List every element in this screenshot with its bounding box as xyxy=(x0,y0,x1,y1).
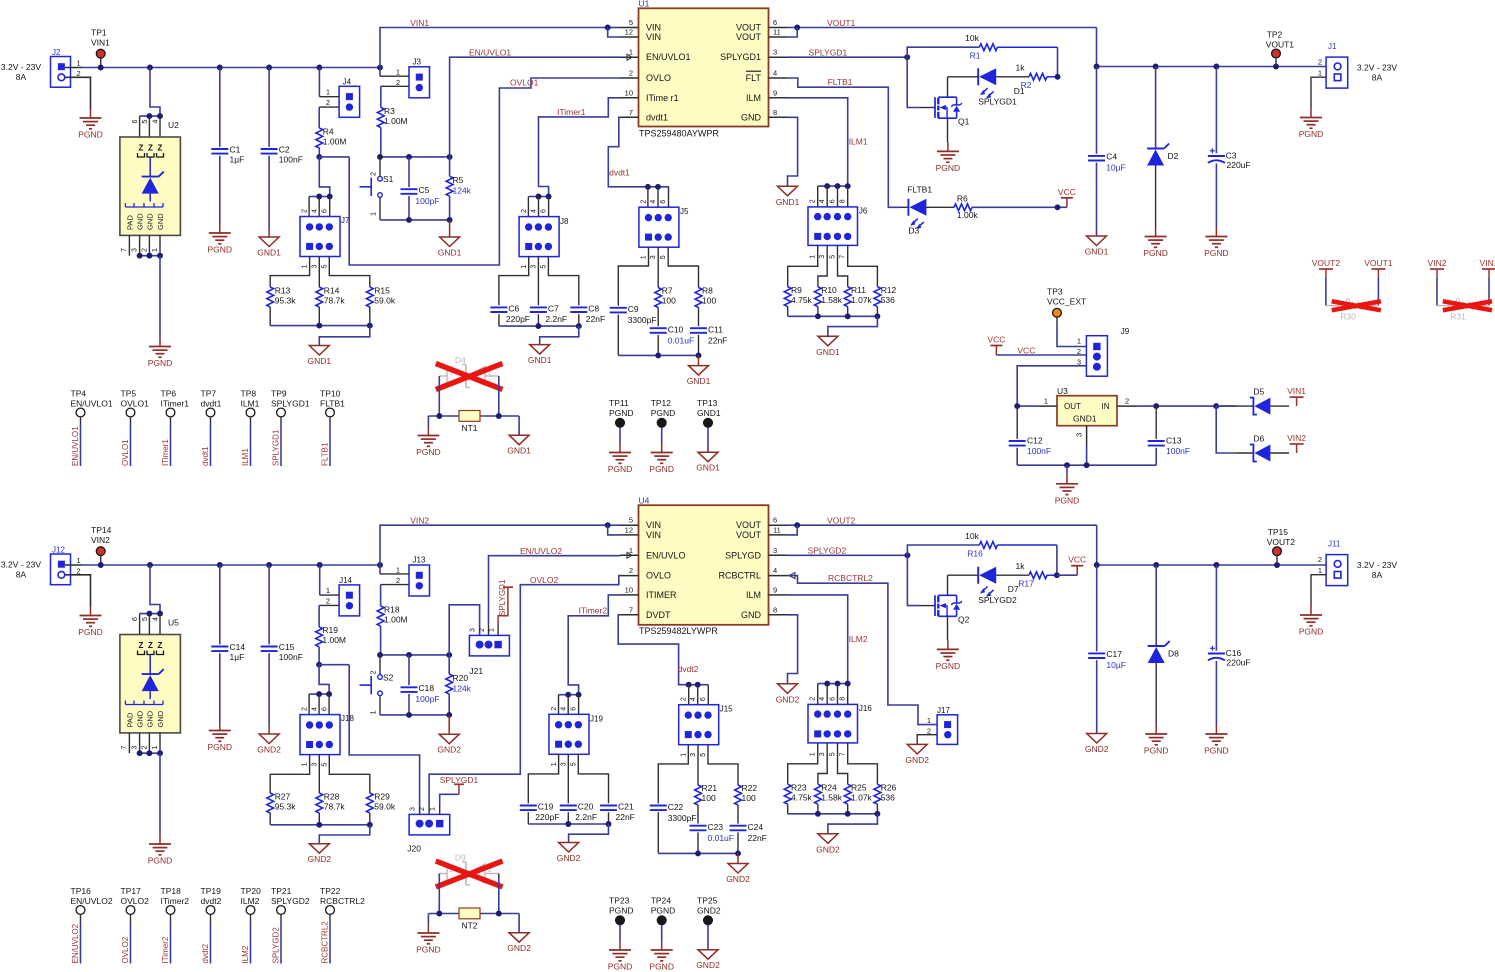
svg-text:R14: R14 xyxy=(324,286,340,296)
svg-text:R22: R22 xyxy=(742,783,758,793)
svg-text:R17: R17 xyxy=(1018,578,1034,588)
svg-text:J17: J17 xyxy=(937,706,950,715)
capacitor C24 22nF xyxy=(730,822,767,853)
svg-text:ITimer2: ITimer2 xyxy=(161,936,170,963)
wire U4 GND pin to GND2 xyxy=(787,615,798,684)
power symbol PGND at TP24 xyxy=(649,941,674,972)
net label EN/UVLO2 xyxy=(520,546,562,556)
svg-text:1: 1 xyxy=(1318,566,1322,575)
svg-text:EN/UVLO2: EN/UVLO2 xyxy=(71,923,80,963)
jumper J6 xyxy=(808,186,868,259)
svg-text:TP24: TP24 xyxy=(651,896,672,906)
svg-text:5: 5 xyxy=(321,763,328,767)
svg-text:VIN2: VIN2 xyxy=(1287,433,1306,443)
svg-text:0.01uF: 0.01uF xyxy=(668,336,694,346)
wire net OVLO2 J20 pin2 to U4 xyxy=(429,576,620,804)
svg-text:4: 4 xyxy=(819,199,826,203)
svg-text:EN/UVLO1: EN/UVLO1 xyxy=(71,426,80,466)
svg-text:220uF: 220uF xyxy=(1227,657,1251,667)
resistor R25 1.07k xyxy=(844,783,872,814)
svg-text:GND2: GND2 xyxy=(816,844,840,854)
diode D9 (DNP crossed out) xyxy=(439,853,499,886)
svg-text:EN/UVLO2: EN/UVLO2 xyxy=(71,896,113,906)
capacitor C2 xyxy=(261,68,303,229)
svg-text:5: 5 xyxy=(629,516,633,525)
test point TP8 ILM1 xyxy=(241,389,260,467)
svg-text:C20: C20 xyxy=(578,802,594,812)
net flag SPLYGD1 at J20 pin1 xyxy=(440,775,479,804)
LED D3 FLTB1 xyxy=(901,185,954,236)
wire bus to U2 xyxy=(140,68,163,138)
jumper J19 xyxy=(549,695,603,767)
resistor R17 1k xyxy=(1016,561,1060,588)
power symbol PGND at NT1 xyxy=(416,416,441,457)
header J9 xyxy=(1077,327,1130,376)
jumper J18 xyxy=(300,707,354,767)
wire divider bottoms to GND2 xyxy=(270,822,373,844)
svg-text:PGND: PGND xyxy=(1299,627,1324,637)
svg-text:1.07k: 1.07k xyxy=(851,793,873,803)
svg-text:2: 2 xyxy=(326,98,330,107)
svg-text:7: 7 xyxy=(840,752,847,756)
net label ITimer2 xyxy=(579,605,608,615)
svg-text:R19: R19 xyxy=(322,625,338,635)
svg-text:8: 8 xyxy=(773,605,777,614)
svg-text:6: 6 xyxy=(132,120,139,124)
svg-text:PGND: PGND xyxy=(1299,129,1324,139)
svg-text:PGND: PGND xyxy=(1204,248,1229,258)
capacitor C7 2.2nF xyxy=(530,304,567,327)
regulator U3 xyxy=(1037,386,1136,446)
power symbol PGND at J11 xyxy=(1299,606,1324,637)
capacitor C17 10uF xyxy=(1088,565,1126,734)
net label SPLYGD1 xyxy=(809,48,848,58)
svg-text:PGND: PGND xyxy=(1055,495,1080,505)
svg-text:2: 2 xyxy=(1318,555,1322,564)
wires J19 to caps xyxy=(528,754,608,803)
capacitor C15 100nF xyxy=(261,565,303,726)
svg-text:GND1: GND1 xyxy=(1085,247,1109,257)
capacitor C3 220uF xyxy=(1208,67,1251,228)
svg-text:7: 7 xyxy=(840,255,847,259)
svg-text:FLTB1: FLTB1 xyxy=(907,185,932,195)
ground GND2 at J17 xyxy=(905,744,929,765)
svg-text:SPLYGD1: SPLYGD1 xyxy=(440,775,479,785)
capacitor C4 10uF xyxy=(1088,67,1126,237)
svg-text:TP20: TP20 xyxy=(241,886,262,896)
svg-text:1: 1 xyxy=(681,753,688,757)
svg-text:dvdt1: dvdt1 xyxy=(609,168,630,178)
capacitor C6 220pF xyxy=(490,304,530,327)
svg-text:OVLO2: OVLO2 xyxy=(121,936,130,963)
svg-text:PGND: PGND xyxy=(649,464,674,474)
svg-text:VOUT2: VOUT2 xyxy=(827,516,856,526)
header J3 xyxy=(380,58,430,98)
svg-text:D2: D2 xyxy=(1168,151,1179,161)
pushbutton S2 xyxy=(360,655,394,715)
wires J15 pins down xyxy=(658,745,738,804)
svg-text:TP7: TP7 xyxy=(201,389,217,399)
svg-text:GND2: GND2 xyxy=(776,694,800,704)
svg-text:1: 1 xyxy=(396,566,400,575)
svg-text:10k: 10k xyxy=(965,33,979,43)
test point TP10 FLTB1 xyxy=(320,389,345,467)
svg-text:7: 7 xyxy=(121,248,128,252)
capacitor C1 xyxy=(211,68,244,225)
svg-text:1.07k: 1.07k xyxy=(851,295,873,305)
svg-text:J4: J4 xyxy=(343,78,352,87)
wire D4 to NT1 row xyxy=(428,376,519,419)
svg-text:10µF: 10µF xyxy=(1106,660,1126,670)
ground GND2 at C17 xyxy=(1085,734,1109,755)
svg-text:R21: R21 xyxy=(702,783,718,793)
svg-text:TP15: TP15 xyxy=(1268,527,1289,537)
test point TP1 xyxy=(91,28,110,68)
net flag VOUT2 at R30 xyxy=(1312,258,1341,306)
capacitor C23 0.01uF xyxy=(690,822,734,853)
svg-text:10: 10 xyxy=(625,585,633,594)
svg-text:2.2nF: 2.2nF xyxy=(545,314,567,324)
svg-text:C11: C11 xyxy=(708,325,723,335)
power symbol PGND at J1 xyxy=(1299,109,1324,140)
capacitor C5 100pF xyxy=(401,157,440,220)
svg-text:3: 3 xyxy=(132,746,139,750)
svg-text:J6: J6 xyxy=(859,207,868,216)
wire J2 pin2 to PGND xyxy=(65,77,91,109)
net tie NT2 xyxy=(459,908,480,931)
svg-text:GND1: GND1 xyxy=(696,463,720,473)
svg-text:TP4: TP4 xyxy=(71,389,87,399)
ground GND1 at TP13 xyxy=(696,452,720,473)
test point TP9 SPLYGD1 xyxy=(271,389,310,467)
svg-text:59.0k: 59.0k xyxy=(374,296,396,306)
svg-text:95.3k: 95.3k xyxy=(275,296,297,306)
svg-text:C12: C12 xyxy=(1027,435,1043,445)
red X over R31 xyxy=(1443,301,1492,310)
wire U3 IN node xyxy=(1137,403,1237,409)
svg-text:536: 536 xyxy=(881,793,895,803)
net flag VOUT1 at R30 xyxy=(1364,258,1393,306)
svg-text:U3: U3 xyxy=(1057,386,1068,396)
svg-text:OVLO2: OVLO2 xyxy=(530,575,559,585)
svg-text:GND1: GND1 xyxy=(528,355,552,365)
svg-text:124k: 124k xyxy=(453,186,472,196)
connector J1 xyxy=(1318,42,1398,88)
header J13 xyxy=(380,556,430,597)
svg-text:VIN2: VIN2 xyxy=(410,516,429,526)
wire U5 bottom pins to PGND xyxy=(129,733,163,835)
net VCC at R6 xyxy=(1055,187,1076,210)
svg-text:J5: J5 xyxy=(680,207,689,216)
svg-text:GND2: GND2 xyxy=(697,905,721,915)
svg-text:1.58k: 1.58k xyxy=(821,793,843,803)
test point TP7 dvdt1 xyxy=(201,389,222,467)
svg-text:OVLO1: OVLO1 xyxy=(121,398,150,408)
ground GND2 at C15 xyxy=(257,726,281,755)
svg-text:PGND: PGND xyxy=(208,245,233,255)
svg-text:TP22: TP22 xyxy=(320,886,341,896)
net flag SPLYGD1 at J21 pin1 xyxy=(498,579,513,625)
ground GND1 at ILM divider xyxy=(816,336,840,357)
wire node to J18 select bar xyxy=(309,665,332,715)
svg-text:8A: 8A xyxy=(1372,570,1383,580)
wire S1/C5/R5 bottoms xyxy=(380,217,453,223)
svg-text:6: 6 xyxy=(773,516,777,525)
resistor R16 10k xyxy=(907,531,1057,575)
resistor R30 0 (DNP crossed out) xyxy=(1326,297,1379,322)
resistor R18 1.00M xyxy=(377,585,407,655)
svg-text:dvdt2: dvdt2 xyxy=(678,664,699,674)
svg-text:J18: J18 xyxy=(341,714,354,723)
power symbol PGND at U5 xyxy=(148,835,173,866)
svg-text:ITimer1: ITimer1 xyxy=(161,398,190,408)
svg-text:GND1: GND1 xyxy=(776,197,800,207)
svg-text:2: 2 xyxy=(641,200,648,204)
svg-text:6: 6 xyxy=(571,707,578,711)
resistor R11 1.07k xyxy=(844,285,872,316)
svg-text:TP13: TP13 xyxy=(697,398,718,408)
net tie NT1 xyxy=(459,411,480,434)
svg-text:2: 2 xyxy=(396,576,400,585)
ground GND2 at C24 xyxy=(726,853,750,884)
svg-text:78.7k: 78.7k xyxy=(324,802,346,812)
svg-text:TP21: TP21 xyxy=(271,886,292,896)
svg-text:4: 4 xyxy=(773,566,777,575)
resistor R3 1.00M xyxy=(377,86,407,157)
svg-text:GND1: GND1 xyxy=(507,446,531,456)
svg-text:100pF: 100pF xyxy=(415,694,439,704)
power symbol PGND at C1 xyxy=(208,224,233,255)
capacitor C21 22nF xyxy=(600,802,635,825)
test point TP23 PGND xyxy=(609,896,634,942)
svg-text:ILM1: ILM1 xyxy=(849,137,868,147)
svg-text:11: 11 xyxy=(773,525,781,534)
svg-text:R10: R10 xyxy=(821,285,837,295)
wire S2/C18/R20 bottoms xyxy=(380,712,452,718)
svg-text:8A: 8A xyxy=(16,72,27,82)
svg-text:VOUT2: VOUT2 xyxy=(1312,258,1341,268)
resistor R24 1.58k xyxy=(815,783,843,814)
power symbol PGND at J12 xyxy=(78,607,103,638)
power symbol PGND at J2 xyxy=(78,109,103,140)
svg-text:2: 2 xyxy=(302,707,309,711)
power symbol PGND at D8 xyxy=(1144,725,1169,756)
resistor R15 59.0k xyxy=(366,286,395,326)
svg-text:OVLO: OVLO xyxy=(646,571,671,581)
svg-text:R20: R20 xyxy=(453,673,469,683)
svg-text:4: 4 xyxy=(531,209,538,213)
svg-text:R7: R7 xyxy=(662,286,673,296)
svg-text:3: 3 xyxy=(773,48,777,57)
resistor R4 1.00M xyxy=(316,107,347,157)
svg-text:OUT: OUT xyxy=(1064,402,1081,411)
svg-text:OVLO2: OVLO2 xyxy=(121,896,150,906)
svg-text:R5: R5 xyxy=(453,175,464,185)
svg-text:4: 4 xyxy=(650,200,657,204)
svg-text:5: 5 xyxy=(571,762,578,766)
net flag VIN2 at R31 xyxy=(1428,258,1447,306)
wire bus to J3 pin1 xyxy=(379,68,381,77)
net label RCBCTRL2 xyxy=(828,573,873,583)
resistor R29 59.0k xyxy=(366,792,395,825)
svg-text:1.00M: 1.00M xyxy=(384,116,408,126)
svg-text:1.00M: 1.00M xyxy=(322,635,346,645)
svg-text:D3: D3 xyxy=(908,226,919,236)
svg-text:3: 3 xyxy=(311,265,318,269)
jumper J16 xyxy=(808,684,872,757)
svg-text:RCBCTRL: RCBCTRL xyxy=(718,571,761,581)
svg-text:C6: C6 xyxy=(508,304,519,314)
svg-text:EN/UVLO1: EN/UVLO1 xyxy=(469,48,511,58)
svg-text:PGND: PGND xyxy=(208,742,233,752)
svg-text:SPLYGD2: SPLYGD2 xyxy=(978,595,1017,605)
svg-text:8: 8 xyxy=(773,108,777,117)
svg-text:100: 100 xyxy=(742,793,756,803)
svg-text:3: 3 xyxy=(1075,433,1084,437)
svg-text:12: 12 xyxy=(625,525,633,534)
svg-text:100nF: 100nF xyxy=(1166,446,1190,456)
svg-text:ITime r1: ITime r1 xyxy=(646,93,679,103)
svg-text:R4: R4 xyxy=(323,127,334,137)
wire ILM resistors bottom rail xyxy=(788,313,881,336)
svg-text:R1: R1 xyxy=(970,51,981,61)
svg-text:VIN: VIN xyxy=(646,23,661,33)
ground GND1 at C2 xyxy=(257,228,281,258)
svg-text:3.2V - 23V: 3.2V - 23V xyxy=(1357,560,1397,570)
svg-text:J12: J12 xyxy=(52,546,65,555)
svg-text:22nF: 22nF xyxy=(748,833,767,843)
test point TP13 GND1 xyxy=(697,398,721,452)
test point TP5 OVLO1 xyxy=(121,389,150,467)
capacitor C9 3300pF xyxy=(610,304,657,355)
svg-text:1: 1 xyxy=(371,212,378,216)
svg-text:R13: R13 xyxy=(275,286,291,296)
svg-text:5: 5 xyxy=(829,752,836,756)
pushbutton S1 xyxy=(360,157,394,220)
svg-text:R16: R16 xyxy=(967,548,983,558)
svg-text:1: 1 xyxy=(1318,69,1322,78)
power symbol PGND at D2 xyxy=(1143,228,1168,259)
net label ILM2 xyxy=(849,634,868,644)
svg-text:124k: 124k xyxy=(453,684,472,694)
svg-text:VIN1: VIN1 xyxy=(1287,386,1306,396)
svg-text:J13: J13 xyxy=(413,556,426,565)
svg-text:PGND: PGND xyxy=(1143,248,1168,258)
svg-text:J11: J11 xyxy=(1328,540,1341,549)
svg-text:1: 1 xyxy=(302,265,309,269)
net label ILM1 xyxy=(849,137,868,147)
test point TP17 OVLO2 xyxy=(121,886,150,964)
svg-text:C10: C10 xyxy=(668,325,684,335)
resistor R21 100 xyxy=(695,783,718,824)
svg-text:D6: D6 xyxy=(1253,434,1264,444)
svg-text:TP5: TP5 xyxy=(121,389,137,399)
net label dvdt1 xyxy=(609,168,630,178)
test point TP6 ITimer1 xyxy=(161,389,190,467)
wire net dvdt2 xyxy=(618,615,708,688)
header J20 xyxy=(407,804,449,854)
svg-text:5: 5 xyxy=(142,617,149,621)
connector J12 xyxy=(1,546,81,585)
svg-text:GND2: GND2 xyxy=(307,854,331,864)
svg-text:TP11: TP11 xyxy=(609,398,629,408)
test point TP16 EN/UVLO2 xyxy=(71,886,113,964)
wire TP3 to J9 pin1 xyxy=(1057,326,1086,347)
ground GND2 at divider xyxy=(307,844,331,865)
svg-text:22nF: 22nF xyxy=(616,812,635,822)
power symbol VCC at J9 xyxy=(987,335,1005,356)
svg-text:R18: R18 xyxy=(384,605,400,615)
power symbol PGND at C3 xyxy=(1204,228,1229,259)
svg-text:4: 4 xyxy=(773,69,777,78)
svg-text:PGND: PGND xyxy=(148,358,173,368)
svg-text:4: 4 xyxy=(561,707,568,711)
svg-text:1.00M: 1.00M xyxy=(323,137,347,147)
wire net ITimer1 xyxy=(528,98,620,200)
svg-text:GND1: GND1 xyxy=(697,408,721,418)
svg-text:2: 2 xyxy=(371,670,378,674)
test point TP24 PGND xyxy=(651,896,676,942)
svg-text:Q1: Q1 xyxy=(958,117,970,127)
wire C6-C8 bottoms to GND1 xyxy=(499,323,582,344)
svg-text:5: 5 xyxy=(660,255,667,259)
svg-text:Z: Z xyxy=(139,144,144,153)
wire net FLTB1 xyxy=(787,78,901,207)
svg-text:TP6: TP6 xyxy=(161,389,177,399)
test point TP19 dvdt2 xyxy=(201,886,222,964)
svg-text:ILM: ILM xyxy=(746,93,761,103)
svg-text:4: 4 xyxy=(690,697,697,701)
svg-text:TP2: TP2 xyxy=(1267,30,1283,40)
svg-text:R11: R11 xyxy=(851,285,866,295)
svg-text:ITimer1: ITimer1 xyxy=(557,107,586,117)
diode D6 xyxy=(1216,406,1289,461)
wire VIN pins of U4 xyxy=(605,522,620,535)
svg-text:3: 3 xyxy=(132,248,139,252)
wire J11 pin1 to PGND xyxy=(1311,575,1326,606)
svg-text:2: 2 xyxy=(629,69,633,78)
svg-text:ILM: ILM xyxy=(746,590,761,600)
wire VIN2 input bus xyxy=(98,562,383,568)
wire net EN/UVLO2 J21 pin2 to U4 xyxy=(489,556,621,625)
svg-text:2.2nF: 2.2nF xyxy=(575,812,597,822)
svg-text:1: 1 xyxy=(927,716,931,725)
svg-text:dvdt1: dvdt1 xyxy=(201,446,210,466)
resistor R8 100 xyxy=(695,286,716,327)
svg-text:ILM1: ILM1 xyxy=(241,398,260,408)
svg-text:TP9: TP9 xyxy=(271,389,287,399)
svg-text:VIN2: VIN2 xyxy=(1428,258,1447,268)
wire net VOUT2 xyxy=(787,522,1097,565)
svg-text:J3: J3 xyxy=(413,58,422,67)
connector J2 xyxy=(1,48,81,87)
svg-text:TP12: TP12 xyxy=(651,398,672,408)
resistor R12 536 xyxy=(874,285,897,316)
svg-text:PGND: PGND xyxy=(936,163,961,173)
svg-text:1.00M: 1.00M xyxy=(384,615,408,625)
svg-text:R26: R26 xyxy=(881,783,897,793)
svg-text:4: 4 xyxy=(311,209,318,213)
svg-text:Q2: Q2 xyxy=(958,615,970,625)
resistor R1 10k xyxy=(907,33,1057,77)
svg-text:PGND: PGND xyxy=(78,627,103,637)
svg-text:1: 1 xyxy=(302,763,309,767)
wire VIN pins of U1 xyxy=(605,25,620,37)
svg-text:VIN: VIN xyxy=(646,32,661,42)
header J14 xyxy=(319,576,360,616)
svg-text:SPLYGD2: SPLYGD2 xyxy=(272,927,281,964)
svg-text:9: 9 xyxy=(773,585,777,594)
